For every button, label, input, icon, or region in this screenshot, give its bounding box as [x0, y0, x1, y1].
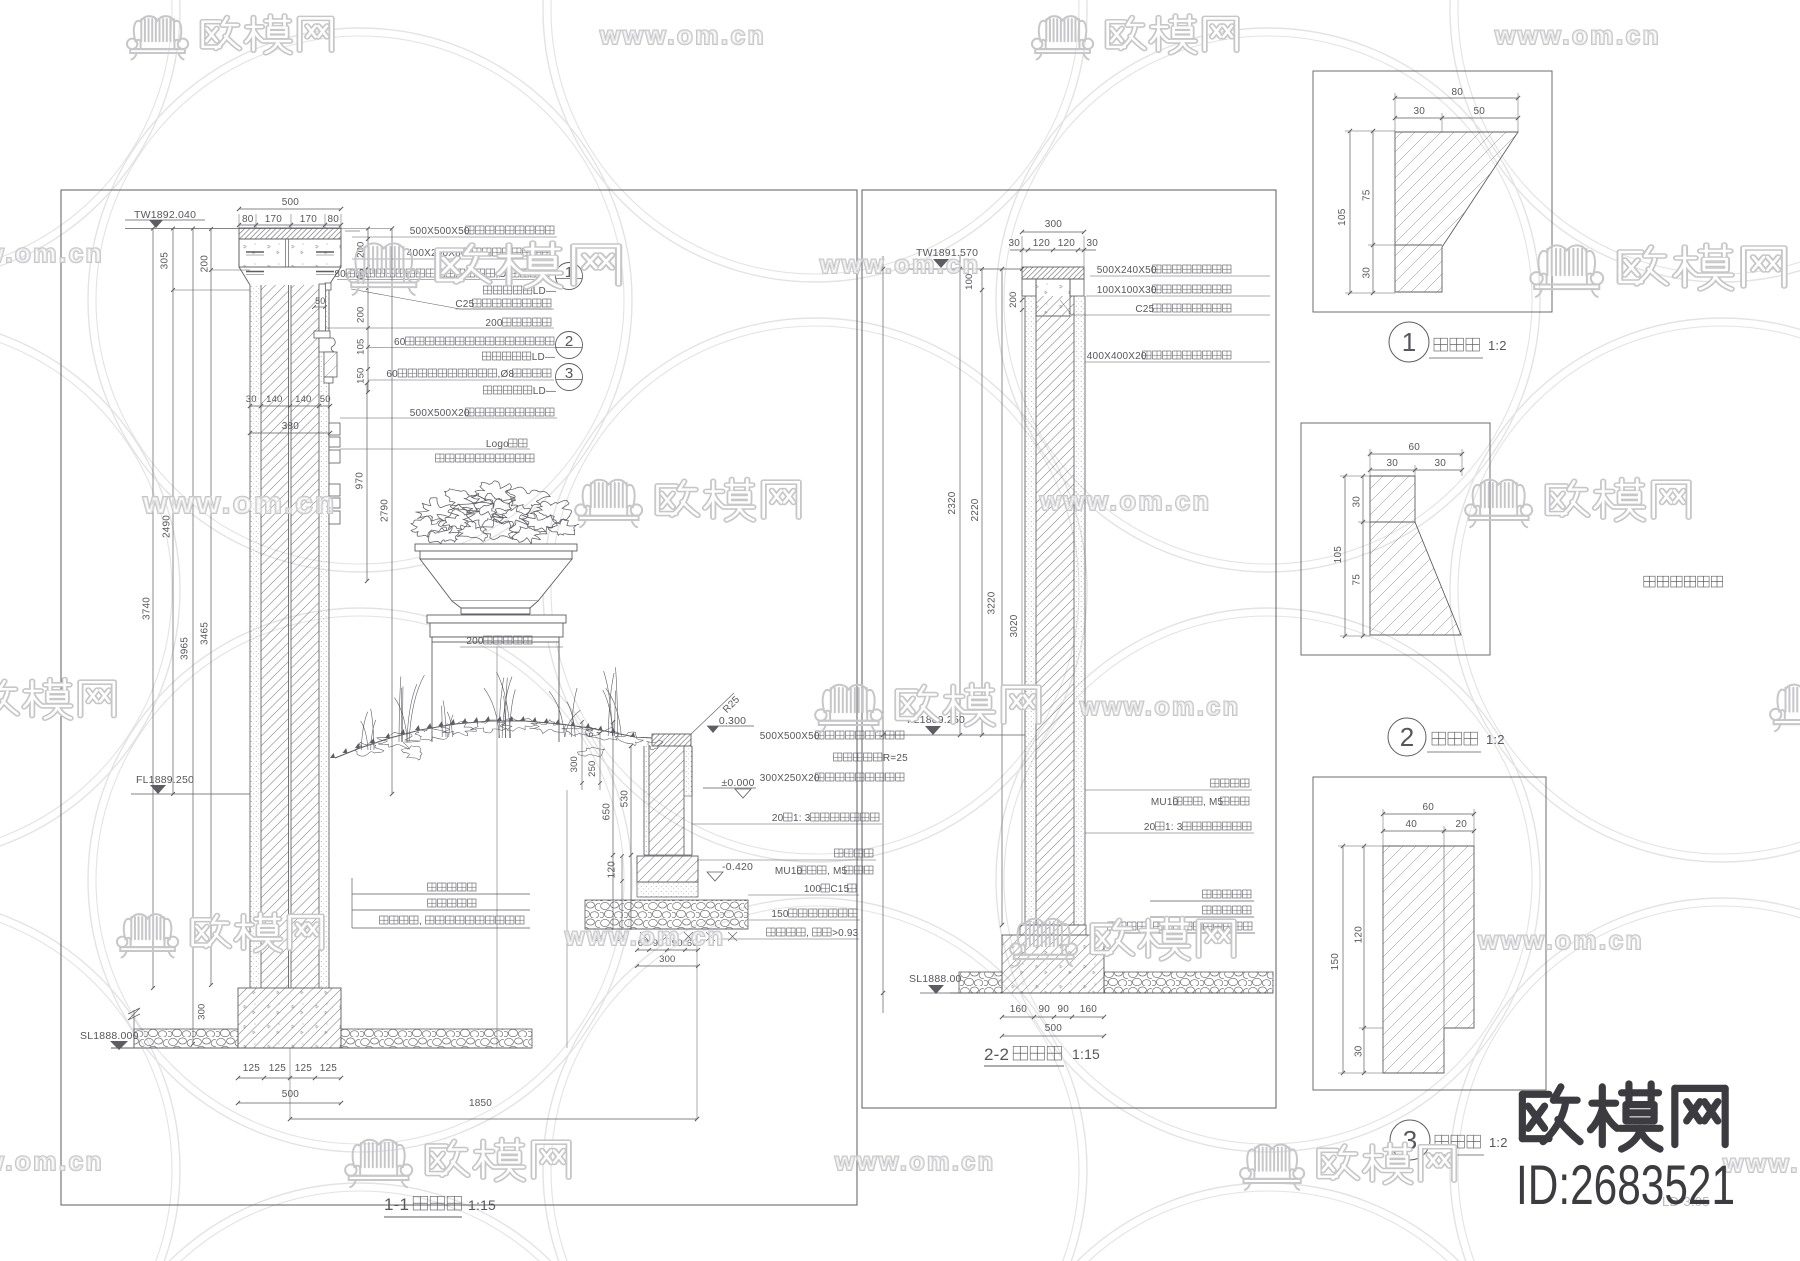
svg-text:SL1888.00: SL1888.00	[909, 973, 962, 985]
svg-text:170: 170	[265, 214, 283, 225]
300/250 dims at berm right	[569, 756, 580, 772]
svg-text:C15: C15	[830, 884, 849, 895]
svg-text:200: 200	[355, 306, 366, 322]
svg-text:1: 3: 1: 3	[793, 813, 811, 824]
svg-text:TW1892.040: TW1892.040	[134, 209, 196, 221]
svg-text:50: 50	[585, 727, 595, 737]
svg-text:FL1889.250: FL1889.250	[136, 774, 194, 786]
svg-text:±0.000: ±0.000	[721, 777, 754, 789]
svg-text:20: 20	[772, 813, 784, 824]
svg-text:www.om.cn: www.om.cn	[0, 238, 104, 268]
svg-text:2: 2	[565, 333, 573, 350]
svg-text:150: 150	[355, 367, 366, 383]
svg-text:MU10: MU10	[1151, 797, 1179, 808]
svg-text:500X500X50: 500X500X50	[410, 226, 470, 237]
svg-text:60: 60	[386, 369, 398, 380]
svg-text:75: 75	[1362, 189, 1373, 201]
svg-text:www.om.cn: www.om.cn	[142, 485, 337, 520]
detail label text 标识墙详图二	[1644, 576, 1655, 587]
wall dims 650/530/120	[612, 722, 614, 930]
svg-text:ID:2683521: ID:2683521	[1516, 1153, 1735, 1216]
svg-text:140: 140	[266, 394, 282, 405]
svg-text:125: 125	[295, 1063, 313, 1074]
right low wall	[652, 734, 691, 746]
svg-text:200: 200	[466, 636, 484, 647]
svg-text:,: ,	[419, 916, 422, 927]
svg-text:30: 30	[1009, 238, 1021, 249]
svg-text:www.om.cn: www.om.cn	[564, 923, 725, 951]
detail 2 box	[1301, 423, 1490, 655]
svg-text:120: 120	[607, 861, 618, 879]
svg-text:125: 125	[269, 1063, 287, 1074]
svg-text:500: 500	[282, 197, 300, 208]
svg-text:www.om.cn: www.om.cn	[1477, 925, 1644, 955]
svg-text:650: 650	[602, 803, 613, 821]
logo letter blocks	[329, 423, 340, 435]
svg-text:2320: 2320	[947, 491, 958, 514]
svg-text:2-2: 2-2	[984, 1045, 1009, 1064]
svg-text:1850: 1850	[469, 1098, 492, 1109]
svg-text:C25: C25	[455, 299, 474, 310]
svg-text:1:2: 1:2	[1486, 732, 1505, 747]
svg-text:3220: 3220	[987, 591, 998, 614]
svg-text:LD—: LD—	[532, 352, 555, 363]
middle wall cap	[1022, 267, 1084, 279]
svg-text:500X240X50: 500X240X50	[1097, 265, 1157, 276]
svg-text:160: 160	[1080, 1004, 1098, 1015]
footing left column	[238, 988, 341, 1048]
svg-text:250: 250	[587, 760, 598, 776]
svg-text:1:2: 1:2	[1488, 338, 1507, 353]
svg-text:0.300: 0.300	[719, 715, 746, 727]
svg-text:1: 3: 1: 3	[1165, 822, 1183, 833]
svg-text:170: 170	[300, 214, 318, 225]
column body layers	[250, 285, 261, 988]
svg-text:160: 160	[1010, 1004, 1028, 1015]
svg-text:R=25: R=25	[883, 753, 908, 764]
svg-text:20: 20	[1456, 819, 1468, 830]
svg-text:Logo: Logo	[486, 439, 509, 450]
svg-text:50: 50	[1474, 106, 1486, 117]
svg-text:300: 300	[569, 756, 580, 772]
detail 2 shape	[1370, 476, 1461, 635]
svg-text:www.om.cn: www.om.cn	[0, 1146, 104, 1176]
planter	[416, 498, 460, 525]
svg-text:500X500X20: 500X500X20	[410, 408, 470, 419]
svg-text:380: 380	[282, 421, 300, 432]
svg-text:140: 140	[295, 394, 311, 405]
svg-text:1:15: 1:15	[1072, 1046, 1100, 1062]
svg-text:www.om.cn: www.om.cn	[1494, 20, 1661, 50]
svg-text:90: 90	[1058, 1004, 1070, 1015]
svg-text:300: 300	[1045, 219, 1063, 230]
svg-text:305: 305	[160, 252, 171, 270]
svg-text:1:15: 1:15	[468, 1197, 496, 1213]
svg-text:400X400X20: 400X400X20	[1087, 351, 1147, 362]
svg-text:105: 105	[1337, 208, 1348, 226]
svg-text:120: 120	[1354, 926, 1365, 944]
middle drawing border	[862, 190, 1276, 1108]
R25 + right level labels	[691, 693, 734, 734]
svg-text:80: 80	[328, 214, 340, 225]
middle wall footing	[1020, 925, 1086, 935]
svg-text:80: 80	[242, 214, 254, 225]
svg-text:1-1: 1-1	[384, 1195, 409, 1214]
svg-text:3740: 3740	[142, 597, 153, 620]
svg-text:www.om.cn: www.om.cn	[819, 251, 980, 279]
detail 1 box	[1313, 71, 1552, 312]
svg-text:30: 30	[1352, 496, 1363, 508]
svg-text:30: 30	[246, 394, 257, 405]
svg-text:150: 150	[771, 909, 789, 920]
svg-text:75: 75	[1352, 574, 1363, 586]
grass tufts	[399, 676, 401, 742]
detail 1 label	[1389, 322, 1429, 362]
svg-text:>0.93: >0.93	[832, 928, 859, 939]
berm ground curve with ticks	[335, 721, 652, 758]
column cap	[239, 228, 341, 239]
svg-text:30: 30	[1387, 458, 1399, 469]
middle dim chains	[882, 256, 884, 1013]
svg-text:1: 1	[1402, 327, 1416, 357]
svg-text:100X100X30: 100X100X30	[1097, 285, 1157, 296]
big omw logo	[1522, 1087, 1580, 1142]
svg-text:,Ø8: ,Ø8	[498, 369, 515, 380]
detail 2 label	[1388, 718, 1426, 756]
middle wall body	[1025, 296, 1036, 925]
left drawing border	[61, 190, 857, 1205]
svg-text:300X250X20: 300X250X20	[760, 773, 820, 784]
svg-text:,: ,	[806, 928, 809, 939]
svg-text:30: 30	[1354, 1045, 1365, 1057]
svg-text:80: 80	[1452, 87, 1464, 98]
svg-text:50: 50	[315, 296, 325, 306]
svg-text:www.om.cn: www.om.cn	[834, 1148, 995, 1176]
left dim chain	[152, 228, 154, 988]
svg-text:3965: 3965	[180, 637, 191, 660]
svg-text:C25: C25	[1135, 304, 1154, 315]
svg-text:1:2: 1:2	[1489, 1135, 1508, 1150]
gravel right	[585, 900, 748, 929]
svg-text:500: 500	[282, 1089, 300, 1100]
detail 3 shape	[1383, 846, 1474, 1073]
svg-text:40: 40	[1406, 819, 1418, 830]
svg-text:970: 970	[355, 472, 366, 490]
layer table middle	[1203, 890, 1211, 898]
svg-text:2220: 2220	[970, 498, 981, 521]
svg-text:LD—: LD—	[533, 386, 556, 397]
svg-text:100: 100	[804, 884, 822, 895]
svg-text:125: 125	[243, 1063, 261, 1074]
svg-text:60: 60	[1409, 442, 1421, 453]
svg-text:3465: 3465	[200, 622, 211, 645]
detail 3 label	[1390, 1120, 1430, 1160]
stone course ledges right of column	[325, 283, 331, 290]
svg-text:30: 30	[1414, 106, 1426, 117]
svg-text:200: 200	[1008, 291, 1019, 307]
svg-text:-0.420: -0.420	[722, 861, 753, 873]
svg-text:MU10: MU10	[775, 866, 803, 877]
table of layers (left drawing)	[428, 883, 436, 891]
svg-text:20: 20	[1144, 822, 1156, 833]
svg-text:300: 300	[659, 954, 675, 965]
gravel left	[134, 1029, 238, 1048]
svg-text:125: 125	[320, 1063, 338, 1074]
svg-text:2: 2	[1400, 722, 1414, 752]
svg-text:30: 30	[1435, 458, 1447, 469]
svg-text:LD—: LD—	[533, 286, 556, 297]
svg-text:www.om.cn: www.om.cn	[1079, 693, 1240, 721]
low wall footing	[637, 856, 698, 882]
svg-text:120: 120	[1033, 238, 1051, 249]
svg-text:2790: 2790	[380, 499, 391, 522]
svg-text:30: 30	[1362, 267, 1373, 279]
right stone-course dim chain x368	[367, 228, 369, 392]
970 and 2790 dims	[366, 383, 368, 581]
svg-text:www.om.cn: www.om.cn	[599, 20, 766, 50]
svg-text:150: 150	[1330, 953, 1341, 971]
svg-text:SL1888.000: SL1888.000	[80, 1030, 139, 1042]
svg-text:105: 105	[355, 338, 366, 354]
svg-text:120: 120	[1058, 238, 1076, 249]
svg-text:www.om.cn: www.om.cn	[1039, 486, 1212, 516]
svg-text:200: 200	[485, 318, 503, 329]
svg-text:80: 80	[334, 269, 346, 280]
svg-text:300: 300	[196, 1003, 207, 1019]
svg-text:60: 60	[1423, 802, 1435, 813]
svg-text:500X500X50: 500X500X50	[760, 731, 820, 742]
svg-text:530: 530	[620, 790, 631, 808]
detail 3 box	[1313, 777, 1546, 1090]
svg-text:105: 105	[1333, 546, 1344, 564]
svg-text:3020: 3020	[1009, 614, 1020, 637]
detail 1 shape	[1395, 132, 1518, 292]
svg-text:500: 500	[1045, 1023, 1063, 1034]
svg-text:90: 90	[1039, 1004, 1051, 1015]
svg-text:50: 50	[320, 394, 331, 405]
svg-text:30: 30	[1087, 238, 1099, 249]
svg-text:60: 60	[394, 337, 406, 348]
svg-text:200: 200	[200, 255, 211, 273]
svg-text:3: 3	[565, 365, 573, 382]
